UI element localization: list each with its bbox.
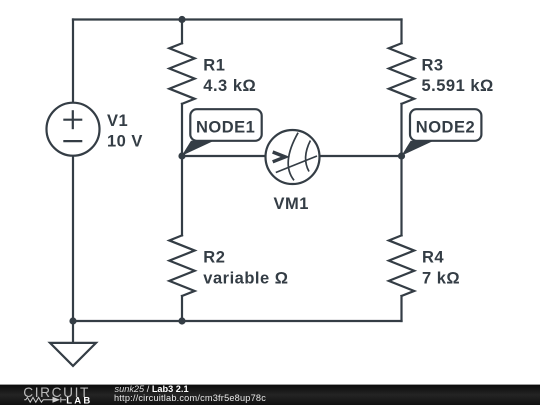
VM1 meter arc right [306, 141, 311, 172]
voltage source V1 [47, 103, 100, 156]
svg-text:10 V: 10 V [107, 133, 143, 151]
V1 plus [63, 110, 82, 129]
svg-text:LAB: LAB [66, 396, 92, 405]
svg-text:VM1: VM1 [274, 195, 309, 213]
wire bottom horizontal [73, 320, 402, 322]
V1 minus [63, 140, 82, 142]
svg-text:NODE1: NODE1 [196, 119, 255, 137]
wire R3 to node2 [400, 104, 402, 156]
wire node1 to R2 [181, 156, 183, 235]
node NODE2 pointer [401, 141, 433, 156]
VM1 chevron [273, 152, 286, 162]
svg-text:R1: R1 [203, 56, 225, 74]
svg-text:NODE2: NODE2 [416, 119, 475, 137]
wire right rail top lead [400, 20, 402, 44]
node NODE1 dot [178, 152, 185, 159]
svg-text:variable Ω: variable Ω [203, 269, 288, 287]
wire node2 to R4 [400, 156, 402, 235]
svg-text:R4: R4 [422, 248, 444, 266]
node NODE2 dot [398, 152, 405, 159]
junction dot bottom left [69, 317, 76, 324]
node NODE2 callout [410, 109, 481, 141]
ground stub [72, 321, 74, 343]
svg-text:5.591 kΩ: 5.591 kΩ [422, 77, 494, 95]
logo diode triangle [53, 397, 61, 403]
wire top horizontal [73, 18, 402, 20]
svg-text:http://circuitlab.com/cm3fr5e8: http://circuitlab.com/cm3fr5e8up78c [114, 393, 266, 403]
svg-text:R2: R2 [203, 248, 225, 266]
VM1 needle [276, 156, 317, 173]
junction dot bottom middle [178, 317, 185, 324]
wire R2 to bottom [181, 296, 183, 321]
voltmeter VM1 [266, 130, 320, 184]
resistor R3 [389, 43, 414, 104]
logo wire resistor diode [24, 397, 66, 402]
wire R4 to bottom [400, 296, 402, 321]
svg-text:7 kΩ: 7 kΩ [422, 269, 460, 287]
wire R1 to node1 [181, 104, 183, 156]
wire left rail lower [72, 156, 74, 321]
wire middle rail top lead [181, 20, 183, 44]
svg-text:R3: R3 [422, 56, 444, 74]
resistor R1 [169, 43, 194, 104]
node NODE1 pointer [182, 141, 214, 156]
wire node1 to voltmeter [182, 155, 266, 157]
wire voltmeter to node2 [320, 155, 402, 157]
VM1 meter arc left [288, 133, 298, 181]
ground [50, 343, 96, 366]
svg-text:V1: V1 [107, 112, 128, 130]
resistor R4 [389, 235, 414, 296]
wire left rail upper [72, 20, 74, 103]
node NODE1 callout [190, 109, 261, 141]
svg-text:4.3 kΩ: 4.3 kΩ [203, 77, 256, 95]
junction dot top [178, 16, 185, 23]
resistor R2 [169, 235, 194, 296]
